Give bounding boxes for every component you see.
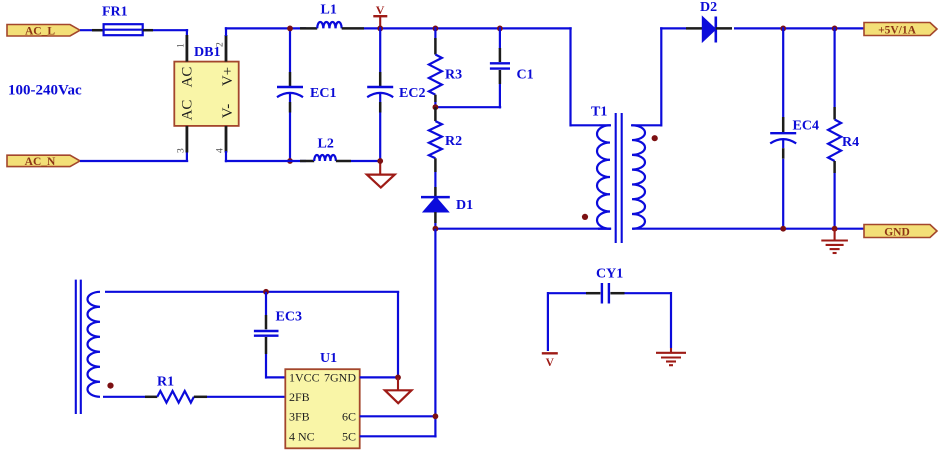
svg-text:2: 2 (216, 42, 226, 47)
wire D1 node to T1 primary bottom (434, 228, 611, 230)
wire CY1 left to power V (548, 292, 586, 351)
wire rail to T1 primary top (571, 27, 600, 126)
T1 polarity dot secondary (652, 135, 658, 141)
junction dot R3 top (433, 26, 439, 32)
wire AC_L to FR1 (80, 29, 104, 31)
svg-text:EC2: EC2 (399, 86, 425, 101)
svg-text:3FB: 3FB (289, 410, 310, 424)
aux winding polarity dot (107, 383, 113, 389)
svg-text:R4: R4 (842, 135, 859, 150)
svg-text:7GND: 7GND (324, 371, 356, 385)
svg-text:1: 1 (177, 43, 187, 48)
inductor L2 (314, 137, 336, 162)
T1 secondary winding (631, 125, 661, 228)
capacitor EC2 (367, 27, 425, 162)
diode D2 (700, 0, 717, 43)
svg-text:2FB: 2FB (289, 390, 310, 404)
junction dot EC1 top (287, 26, 293, 32)
aux winding of T1 (88, 292, 101, 397)
fuse FR1 (102, 5, 143, 36)
pin 1 DB1 (177, 35, 187, 62)
svg-text:V: V (546, 357, 555, 369)
svg-text:L1: L1 (321, 3, 337, 18)
wire DB1 pin2 to top rail (225, 27, 317, 36)
capacitor EC1 (277, 27, 336, 162)
svg-text:EC1: EC1 (310, 86, 336, 101)
port +5V/1A (864, 23, 937, 37)
svg-text:FR1: FR1 (102, 5, 128, 20)
earth ground right of CY1 (656, 348, 686, 365)
junction dot EC4 top (780, 26, 786, 32)
junction dot L2/EC2 bottom (377, 158, 383, 164)
port GND (864, 225, 937, 239)
svg-text:V: V (376, 3, 385, 17)
capacitor EC3 (254, 292, 302, 379)
wire L1 to rail east (342, 27, 572, 30)
junction dot R3 bottom (433, 104, 439, 110)
resistor R2 (429, 107, 462, 187)
resistor R4 (828, 27, 859, 230)
svg-text:D2: D2 (700, 0, 717, 15)
inductor L1 (317, 3, 341, 29)
diode D1 (421, 187, 473, 230)
wire AC_N to DB1 pin3 (80, 151, 188, 161)
wire D2 to +5V rail (716, 27, 864, 30)
junction dot EC4 bottom (780, 226, 786, 232)
earth ground under R4 (821, 229, 848, 253)
svg-text:6C: 6C (342, 410, 356, 424)
wire aux bottom to R1 (103, 396, 157, 398)
svg-text:+5V/1A: +5V/1A (878, 24, 917, 36)
text 100-240Vac (8, 83, 82, 99)
svg-text:4 NC: 4 NC (289, 429, 315, 443)
capacitor C1 (490, 27, 534, 108)
svg-text:GND: GND (884, 226, 910, 238)
wire U1 7GND to ground (360, 376, 400, 378)
svg-text:4: 4 (216, 148, 226, 153)
svg-text:100-240Vac: 100-240Vac (8, 83, 82, 99)
junction dot R4 bottom (832, 226, 838, 232)
svg-text:AC_L: AC_L (25, 26, 55, 38)
pin 2 DB1 (216, 35, 227, 62)
pin 4 DB1 (216, 126, 227, 153)
svg-text:EC3: EC3 (276, 310, 302, 325)
port AC_N (7, 155, 80, 168)
junction dot V top rail (377, 26, 383, 32)
IC U1 (285, 351, 359, 448)
svg-text:L2: L2 (318, 137, 334, 152)
wire T1 secondary top to D2 (660, 27, 702, 126)
svg-text:R2: R2 (445, 134, 462, 149)
power port V top (373, 3, 387, 29)
svg-text:AC: AC (180, 100, 196, 121)
resistor R3 (429, 27, 462, 108)
wire aux top rail (105, 292, 399, 378)
junction dot C1 top (497, 26, 503, 32)
wire L2 to EC2 bottom (336, 160, 380, 163)
T1 polarity dot primary (582, 214, 588, 220)
svg-text:R1: R1 (157, 374, 174, 389)
wire U1 5C to node (360, 435, 437, 437)
junction dot 6C (433, 413, 439, 419)
svg-text:5C: 5C (342, 429, 356, 443)
svg-text:D1: D1 (456, 198, 473, 213)
capacitor CY1 (586, 267, 625, 304)
junction dot 7GND (395, 375, 401, 381)
wire T1 secondary bottom to GND port (633, 228, 864, 230)
svg-text:V+: V+ (220, 67, 236, 86)
transformer T1 (591, 105, 607, 120)
svg-text:AC_N: AC_N (25, 156, 56, 168)
resistor R1 (157, 374, 194, 402)
svg-text:AC: AC (180, 67, 196, 88)
wire CY1 right to earth (625, 292, 672, 348)
svg-text:3: 3 (177, 148, 187, 153)
svg-text:R3: R3 (445, 68, 462, 83)
wire DB1 pin4 to bottom rail (225, 151, 314, 162)
junction dot EC3 top (263, 289, 269, 295)
svg-text:CY1: CY1 (596, 267, 623, 282)
bridge rectifier DB1 (174, 45, 238, 126)
wire U1 6C to node (360, 415, 437, 417)
junction dot D1 bottom node (433, 226, 439, 232)
svg-text:C1: C1 (517, 68, 534, 83)
junction dot R4 top (832, 26, 838, 32)
aux winding core (76, 280, 81, 414)
svg-text:EC4: EC4 (793, 119, 819, 134)
wire R3 bottom to C1 bottom (434, 106, 501, 108)
ground triangle under EC2 (367, 161, 395, 188)
svg-text:V-: V- (220, 104, 236, 118)
wire D1 node down to U1 (434, 229, 436, 438)
pin 3 DB1 (177, 126, 187, 153)
wire R1 to U1 pin2 (194, 396, 285, 399)
svg-text:1VCC: 1VCC (289, 371, 320, 385)
port AC_L (7, 25, 80, 38)
power port V bottom (542, 353, 558, 369)
wire FR1 to DB1 pin1 (143, 29, 189, 36)
junction dot EC1 bottom (287, 158, 293, 164)
capacitor EC4 (770, 27, 819, 230)
T1 primary winding (597, 125, 611, 228)
T1 core (616, 113, 622, 243)
svg-text:U1: U1 (320, 351, 337, 366)
ground triangle under 7GND (385, 377, 412, 403)
svg-text:T1: T1 (591, 105, 607, 120)
